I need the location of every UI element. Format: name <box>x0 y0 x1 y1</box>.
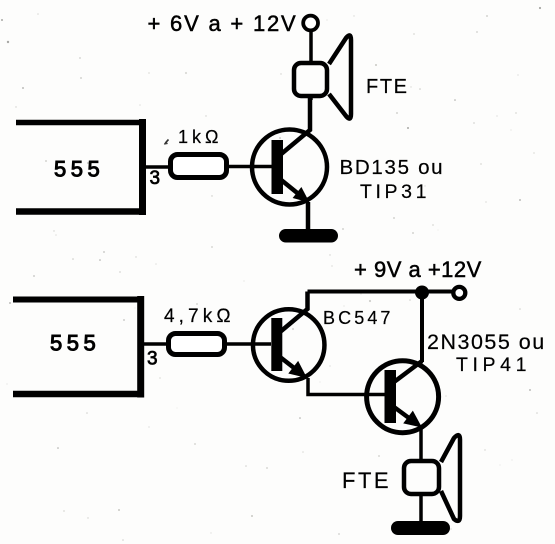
junction dot supply rail <box>415 286 429 300</box>
IC U2 555 box (open left) <box>13 296 144 398</box>
svg-text:BD135 ou: BD135 ou <box>340 156 445 179</box>
wire speaker LS2 to ground <box>419 494 423 523</box>
svg-text:TIP41: TIP41 <box>456 354 531 376</box>
supply terminal (bottom) <box>453 287 465 299</box>
transistor Q3 emitter line <box>394 407 413 421</box>
svg-text:3: 3 <box>150 168 161 189</box>
speaker LS2 cone <box>441 435 460 521</box>
svg-text:+ 6V a + 12V: + 6V a + 12V <box>148 11 298 36</box>
ground (bottom circuit) <box>391 521 450 535</box>
transistor Q1 BD135 body <box>252 130 327 205</box>
transistor Q3 base bar <box>385 370 397 423</box>
transistor Q2 emitter line <box>280 357 298 371</box>
svg-text:TIP31: TIP31 <box>360 181 430 203</box>
resistor R2 <box>169 334 225 355</box>
transistor Q2 base bar <box>271 318 282 371</box>
transistor Q1 base bar <box>272 140 284 194</box>
transistor Q3 emitter arrow <box>403 411 427 434</box>
wire U2 pin3 to R2 <box>144 342 170 346</box>
wire R1 to Q1 base <box>226 165 272 169</box>
transistor Q3 collector line <box>394 361 422 382</box>
wire Q1 emitter to ground <box>306 202 311 231</box>
transistor Q1 emitter line <box>280 179 301 196</box>
speaker LS1 cone <box>329 35 351 118</box>
svg-text:3: 3 <box>147 349 158 370</box>
wire R2 to Q2 base <box>224 342 271 346</box>
transistor Q2 emitter arrow <box>288 361 312 384</box>
wire Q3 emitter to speaker LS2 <box>419 428 423 461</box>
wire Q1 collector to speaker LS1 <box>309 63 313 100</box>
speaker LS1 coil box <box>294 63 327 96</box>
svg-text:555: 555 <box>54 156 104 181</box>
wire Q2 emitter down and right to Q3 base <box>308 378 388 395</box>
svg-text:555: 555 <box>50 331 100 356</box>
svg-text:2N3055 ou: 2N3055 ou <box>427 330 546 354</box>
transistor Q3 2N3055 body <box>367 361 439 433</box>
transistor Q1 collector line <box>280 98 310 155</box>
transistor Q1 emitter arrow <box>293 187 314 208</box>
resistor R1 <box>171 155 227 178</box>
supply terminal (top) <box>303 16 318 31</box>
svg-text:+ 9V a +12V: + 9V a +12V <box>354 257 482 282</box>
stray ink speck near R1 label <box>165 140 169 145</box>
speaker LS2 coil box <box>404 461 439 494</box>
transistor Q2 BC547 body <box>253 309 325 381</box>
wire supply terminal to speaker LS1 <box>309 31 313 62</box>
IC U1 555 box (open left) <box>16 119 145 215</box>
supply rail wire (bottom) <box>308 290 454 294</box>
transistor Q2 collector line <box>280 292 308 333</box>
svg-text:FTE: FTE <box>342 468 391 493</box>
svg-text:1kΩ: 1kΩ <box>178 127 222 147</box>
svg-text:4,7kΩ: 4,7kΩ <box>164 306 235 327</box>
ground (top circuit) <box>279 229 338 243</box>
svg-text:FTE: FTE <box>366 76 409 98</box>
wire U1 pin3 to R1 <box>145 165 172 169</box>
wire junction down to Q3 collector <box>420 293 424 363</box>
svg-text:BC547: BC547 <box>323 308 394 328</box>
